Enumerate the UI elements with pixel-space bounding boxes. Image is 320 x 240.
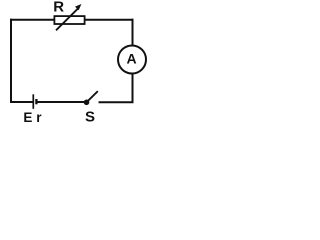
svg-text:R: R — [53, 0, 64, 16]
svg-text:S: S — [85, 109, 95, 126]
svg-text:E: E — [23, 110, 32, 125]
svg-text:A: A — [127, 51, 137, 67]
svg-text:r: r — [36, 110, 42, 125]
